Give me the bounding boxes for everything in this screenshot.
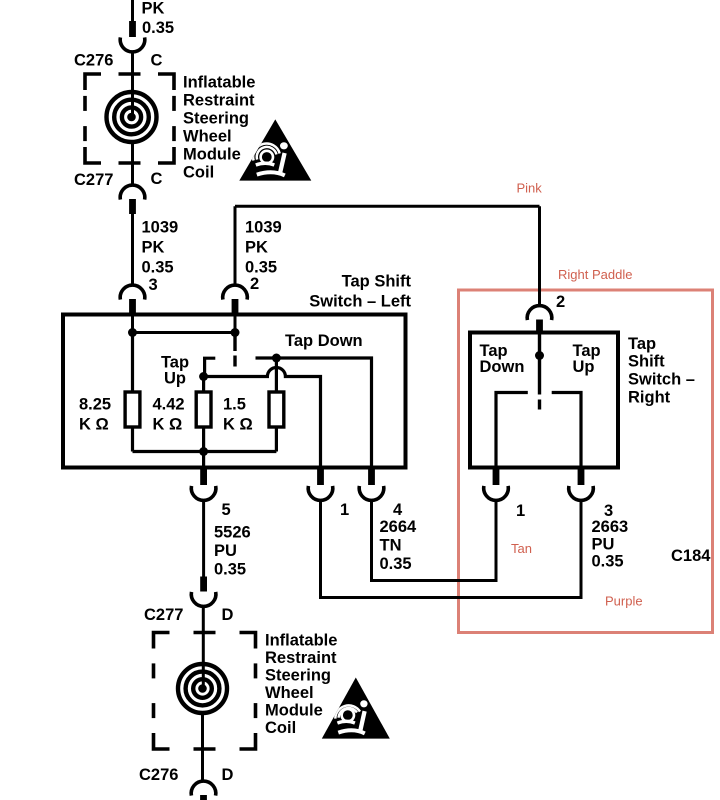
- svg-text:C277: C277: [74, 171, 113, 189]
- connector C277 terminal D pin: [200, 577, 207, 592]
- svg-text:K Ω: K Ω: [79, 416, 109, 434]
- wire: bus down to pin 5: [202, 452, 205, 468]
- svg-text:TN: TN: [380, 537, 402, 555]
- tap shift switch right box outline: [470, 333, 618, 468]
- label C277 / D: [144, 606, 234, 624]
- svg-text:C277: C277: [144, 606, 183, 624]
- C184 connector boundary (orange box): [459, 290, 713, 633]
- label: Tap Shift Switch - Left: [309, 273, 411, 311]
- label 1.5 K ohm: [223, 396, 253, 434]
- svg-text:1: 1: [516, 502, 525, 520]
- svg-text:2: 2: [250, 275, 259, 293]
- svg-text:4: 4: [393, 501, 403, 519]
- junction at 4.42K top: [199, 372, 208, 381]
- svg-text:D: D: [222, 766, 234, 784]
- junction node at pin2 leg: [231, 328, 240, 337]
- junction node at pin3 leg: [128, 328, 137, 337]
- svg-text:Restraint: Restraint: [183, 92, 255, 110]
- connector: switch-left pin 5 terminal pin: [200, 468, 207, 486]
- svg-text:1.5: 1.5: [223, 396, 246, 414]
- wire: resistor common bus: [133, 450, 277, 453]
- svg-text:PU: PU: [214, 542, 237, 560]
- connector C276 terminal C cup: [120, 37, 145, 52]
- svg-text:Up: Up: [573, 358, 595, 376]
- connector: switch-left pin 2 arch: [223, 285, 248, 300]
- svg-text:1039: 1039: [142, 219, 179, 237]
- svg-text:Wheel: Wheel: [183, 128, 232, 146]
- label: Tap Shift Switch - Right: [628, 335, 695, 407]
- label: circuit 1039 PK 0.35 pin 3: [142, 219, 179, 295]
- svg-text:D: D: [222, 606, 234, 624]
- svg-text:2663: 2663: [592, 518, 629, 536]
- label C277 / C: [74, 170, 163, 189]
- label C276 / C: [74, 52, 163, 70]
- tap shift switch left box outline: [63, 315, 406, 468]
- connector: right paddle pin 1 terminal pin: [493, 468, 500, 486]
- connector C276 terminal D pin: [200, 795, 207, 800]
- wire: C277 D to coil (bottom): [202, 606, 205, 688]
- svg-text:C184: C184: [671, 547, 711, 565]
- svg-text:C: C: [151, 52, 163, 70]
- wire: pin4 to right paddle pin1 (tan): [372, 500, 497, 581]
- label: circuit 5526 PU 0.35: [214, 524, 251, 579]
- svg-text:Tap: Tap: [628, 335, 656, 353]
- label Tap Down (right box): [480, 342, 525, 376]
- wire: branch down to switch-left pin 2: [234, 206, 237, 286]
- svg-text:Up: Up: [164, 370, 186, 388]
- svg-text:0.35: 0.35: [214, 561, 246, 579]
- connector: switch-left pin 2 terminal pin: [232, 299, 239, 315]
- coil L1 spiral (top): [107, 92, 157, 142]
- connector C277 terminal C pin: [129, 199, 136, 214]
- tap down contact line to pin4 leg: [256, 358, 372, 467]
- wire: R1 bottom lead: [131, 427, 134, 452]
- svg-text:Module: Module: [183, 146, 241, 164]
- connector: switch-left pin 1 terminal pin: [317, 468, 324, 486]
- connector: right paddle pin 1 cup: [484, 486, 509, 501]
- wire: 8.25K top lead: [131, 333, 134, 393]
- connector: switch-left pin 3 terminal pin: [129, 299, 136, 315]
- connector: switch-left pin 4 cup: [359, 486, 384, 501]
- svg-text:0.35: 0.35: [142, 19, 174, 37]
- wire: R2 bottom lead: [202, 427, 205, 452]
- tap up fixed contact bracket: [205, 358, 216, 376]
- wire: 4.42K top lead: [202, 377, 205, 393]
- connector C276 terminal D arch: [191, 781, 216, 796]
- svg-text:C: C: [151, 170, 163, 188]
- resistor R2 4.42K body: [196, 392, 211, 427]
- svg-text:1039: 1039: [245, 219, 282, 237]
- coil L2 spiral (bottom): [178, 664, 227, 713]
- label: Inflatable Restraint Steering Wheel Module Coil (top): [183, 74, 255, 182]
- wire: 4.42K node to pin1 leg with hop over 1.5K wire: [204, 368, 321, 468]
- svg-text:Coil: Coil: [265, 719, 296, 737]
- svg-text:C276: C276: [74, 52, 113, 70]
- connector: switch-left pin 4 terminal pin: [368, 468, 375, 486]
- svg-text:Wheel: Wheel: [265, 684, 314, 702]
- wire: R3 bottom lead: [275, 427, 278, 452]
- svg-text:3: 3: [149, 276, 158, 294]
- svg-text:C276: C276: [139, 766, 178, 784]
- svg-text:Tan: Tan: [511, 541, 532, 556]
- svg-text:4.42: 4.42: [153, 396, 185, 414]
- wire: pin2 into box to node: [234, 314, 237, 333]
- svg-text:5526: 5526: [214, 524, 251, 542]
- svg-text:Pink: Pink: [517, 181, 543, 196]
- svg-text:0.35: 0.35: [142, 259, 174, 277]
- connector: right paddle pin 2 terminal pin: [536, 320, 543, 334]
- label: Inflatable Restraint Steering Wheel Module Coil (bottom): [265, 632, 337, 738]
- svg-text:0.35: 0.35: [245, 259, 277, 277]
- SRS warning triangle (top): [239, 119, 311, 180]
- svg-text:5: 5: [222, 501, 231, 519]
- svg-text:Module: Module: [265, 702, 323, 720]
- svg-text:PK: PK: [142, 239, 165, 257]
- svg-text:2664: 2664: [380, 518, 418, 536]
- connector: right paddle pin 2 arch: [527, 306, 552, 321]
- svg-text:PK: PK: [245, 239, 268, 257]
- tap down fixed contact to pin1: [496, 393, 528, 468]
- svg-text:K Ω: K Ω: [223, 416, 253, 434]
- wire: coil to C276 D: [201, 714, 204, 782]
- connector C276 terminal C pin: [129, 21, 136, 37]
- svg-text:8.25: 8.25: [79, 396, 111, 414]
- wire: pink feed into C276 from top: [131, 0, 134, 22]
- svg-text:Tap Shift: Tap Shift: [342, 273, 412, 291]
- label: circuit 1039 PK 0.35 pin 2: [245, 219, 282, 294]
- label C276 / D (bottom): [139, 766, 234, 784]
- svg-text:Inflatable: Inflatable: [265, 632, 337, 650]
- resistor R1 8.25K body: [125, 392, 140, 427]
- svg-text:1: 1: [340, 501, 349, 519]
- connector: switch-left pin 1 cup: [308, 486, 333, 501]
- connector: right paddle pin 3 terminal pin: [578, 468, 585, 486]
- SRS warning triangle (bottom): [322, 678, 390, 739]
- switch blade pivot dot: [535, 351, 544, 360]
- wire: pin5 down to C277 D: [202, 500, 205, 577]
- wire: 1.5K top lead: [275, 358, 278, 392]
- svg-text:Restraint: Restraint: [265, 649, 337, 667]
- junction on bus at pin5 leg: [199, 447, 208, 456]
- label: circuit 2663 PU 0.35: [592, 518, 629, 571]
- wire: pin3 into box to node: [131, 314, 134, 333]
- svg-text:PU: PU: [592, 536, 615, 554]
- svg-text:Coil: Coil: [183, 164, 214, 182]
- label Tap Up: [161, 354, 189, 388]
- switch blade (right box): [538, 332, 541, 395]
- label 4.42 K ohm: [153, 396, 185, 434]
- connector C277 terminal D cup: [191, 592, 216, 607]
- svg-text:Steering: Steering: [183, 110, 249, 128]
- svg-text:Tap Down: Tap Down: [285, 332, 363, 350]
- label 8.25 K ohm: [79, 396, 111, 434]
- svg-text:Steering: Steering: [265, 667, 331, 685]
- connector: right paddle pin 3 cup: [569, 486, 594, 501]
- svg-text:0.35: 0.35: [380, 555, 412, 573]
- switch blade dash (right box): [538, 400, 541, 410]
- wire: pin1 to right paddle pin3 (purple): [321, 500, 582, 598]
- tap up fixed contact to pin3: [552, 393, 581, 468]
- wire: pink wire down to right paddle pin 2: [538, 206, 541, 306]
- inflatable restraint steering wheel module coil (bottom) dashed outline: [154, 633, 256, 750]
- switch blade (left box) solid part: [233, 333, 236, 352]
- wire: node line pin3 to pin2: [133, 331, 236, 334]
- label Tap Up (right box): [573, 342, 601, 376]
- svg-text:Down: Down: [480, 358, 525, 376]
- resistor R3 1.5K body: [269, 392, 284, 427]
- svg-text:0.35: 0.35: [592, 553, 624, 571]
- wire 1039 PK down to tap shift switch left pin 3: [131, 214, 134, 286]
- svg-text:2: 2: [556, 293, 565, 311]
- connector C277 terminal C arch: [120, 185, 145, 200]
- connector: switch-left pin 5 cup: [191, 486, 216, 501]
- label: circuit 1039 PK 0.35 (top): [142, 0, 175, 37]
- svg-text:PK: PK: [142, 0, 165, 18]
- svg-text:Switch –: Switch –: [628, 371, 695, 389]
- svg-text:K Ω: K Ω: [153, 416, 183, 434]
- svg-text:Right: Right: [628, 389, 671, 407]
- wire: coil to C277: [131, 144, 134, 187]
- wire: C276 to coil: [131, 52, 134, 118]
- svg-text:Shift: Shift: [628, 353, 665, 371]
- label: circuit 2664 TN 0.35: [380, 518, 418, 573]
- connector: switch-left pin 3 arch: [120, 285, 145, 300]
- inflatable restraint steering wheel module coil (top) dashed outline: [85, 74, 174, 163]
- svg-text:Inflatable: Inflatable: [183, 74, 255, 92]
- junction at 1.5K top: [272, 354, 281, 363]
- svg-text:Switch – Left: Switch – Left: [309, 293, 411, 311]
- svg-text:Right Paddle: Right Paddle: [558, 267, 632, 282]
- svg-text:Purple: Purple: [605, 594, 643, 609]
- wire: 1039 PK branch horizontal to right paddle: [235, 205, 540, 208]
- switch blade (left box) dash: [233, 356, 236, 367]
